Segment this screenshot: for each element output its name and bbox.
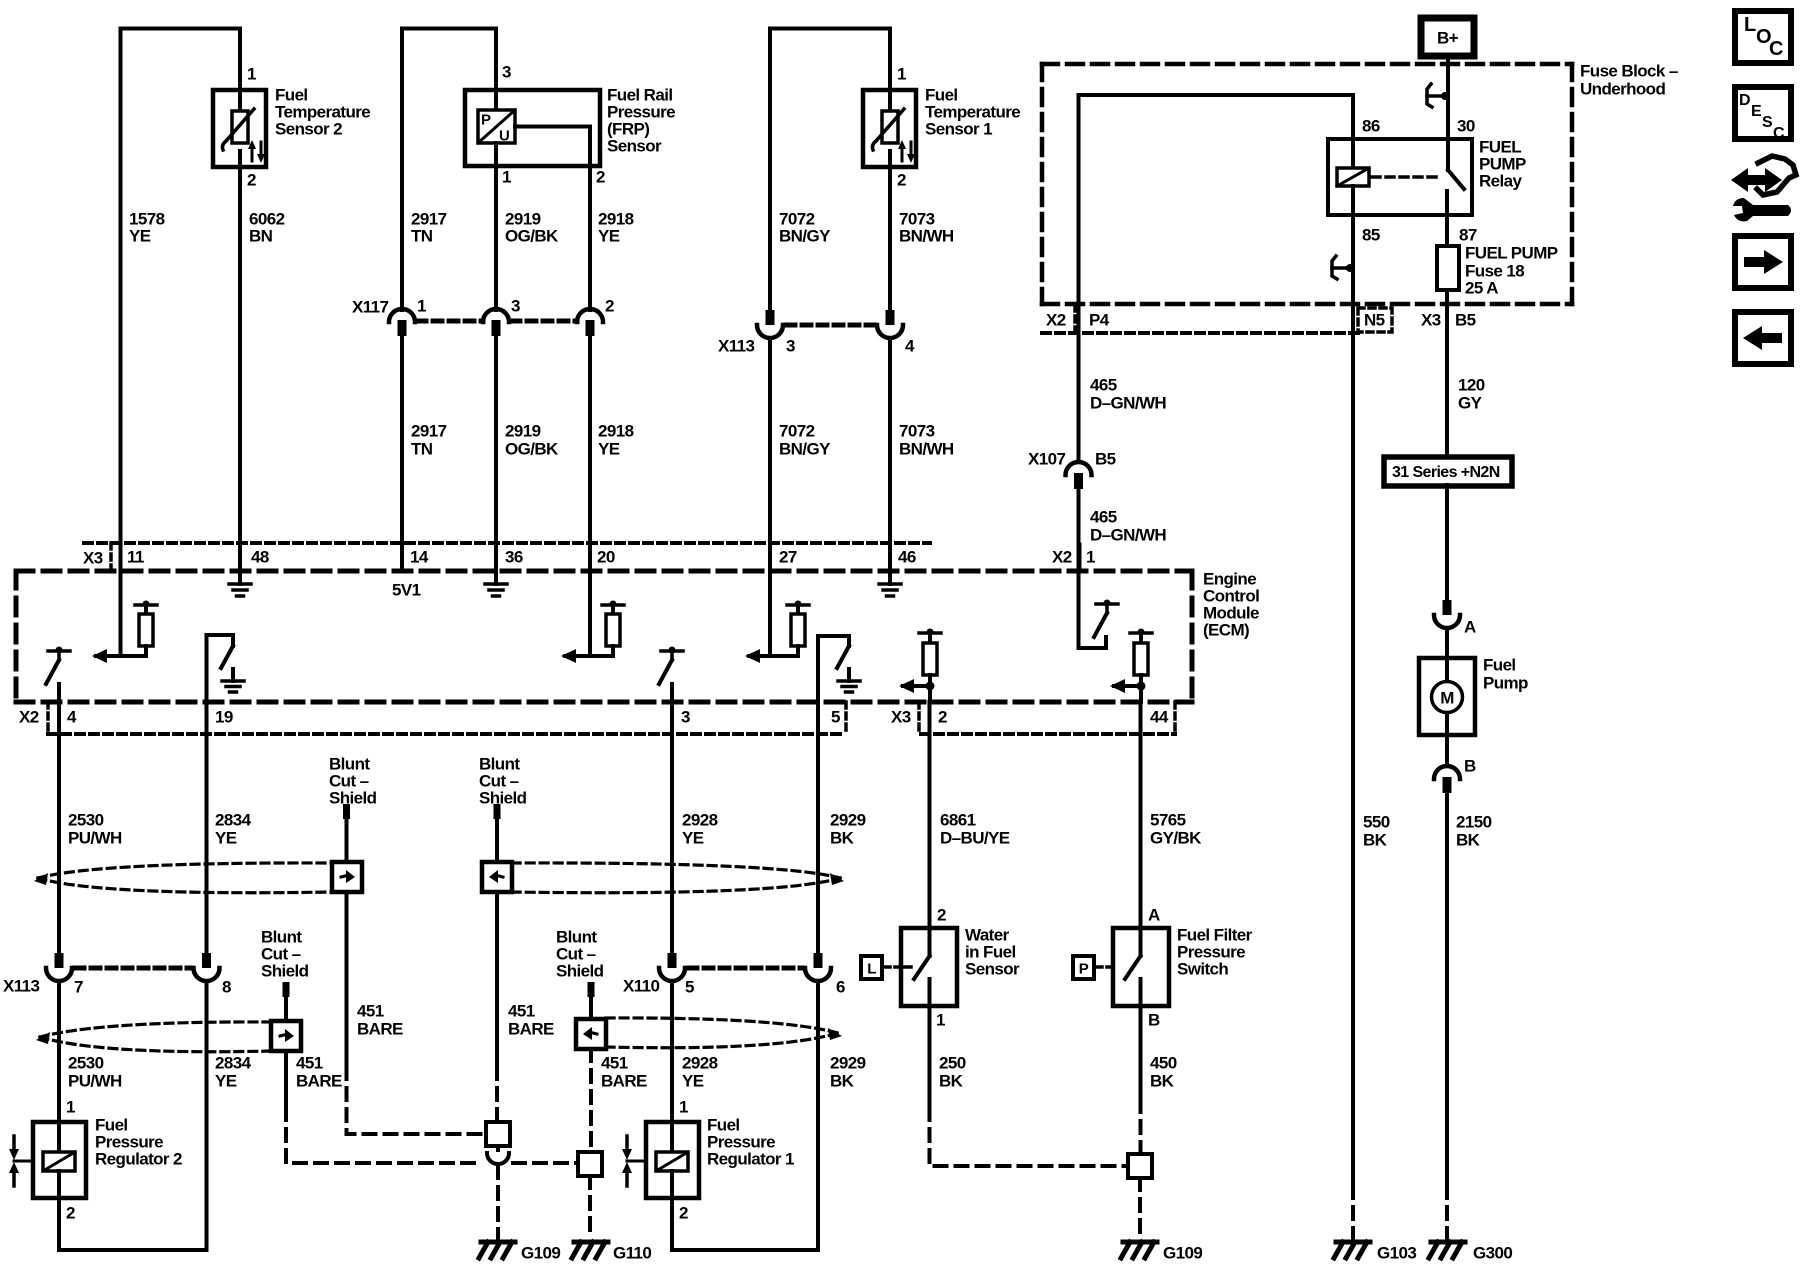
svg-text:Relay: Relay [1479,172,1523,191]
X3 pin 20 [588,543,592,571]
wire loop to Fuel Temperature Sensor 2 pin 1 [121,29,241,544]
svg-text:19: 19 [215,708,233,727]
ECM input for pin 27 [768,571,772,656]
svg-text:3: 3 [511,297,520,316]
31 Series +N2N tag [1384,457,1512,486]
wire 2928 YE lower [670,981,674,1122]
svg-text:TN: TN [411,440,433,459]
svg-text:Shield: Shield [261,962,309,981]
Engine Control Module (ECM) dashed border [16,571,1192,702]
svg-text:P: P [481,112,491,129]
svg-text:X3: X3 [83,549,103,568]
svg-text:Regulator 2: Regulator 2 [95,1150,182,1169]
svg-text:Shield: Shield [329,789,377,808]
svg-text:TN: TN [411,227,433,246]
svg-text:X117: X117 [352,298,389,317]
svg-text:BN: BN [249,227,273,246]
svg-text:GY: GY [1458,394,1483,413]
svg-text:YE: YE [129,227,151,246]
fuse block connector row [1042,331,1358,335]
svg-text:(ECM): (ECM) [1203,621,1249,640]
svg-text:X107: X107 [1028,450,1065,469]
ECM pull-up for pin 44 [1130,631,1152,635]
wire 2530 PU/WH lower [57,981,61,1122]
wire 2834 YE [205,702,209,953]
svg-text:Fuel: Fuel [1483,656,1516,675]
svg-text:YE: YE [215,1072,237,1091]
svg-text:B+: B+ [1437,29,1459,48]
svg-text:20: 20 [597,548,615,567]
blunt cut stub wire 451 lower left [283,982,290,997]
svg-text:D: D [1739,92,1750,109]
svg-text:YE: YE [682,829,704,848]
dashed drain from 451 wire 2 [495,1067,499,1122]
svg-text:85: 85 [1362,226,1380,245]
svg-text:451: 451 [296,1054,323,1073]
shield ellipse right row 2 [606,1018,838,1033]
svg-text:FUEL PUMP: FUEL PUMP [1465,244,1558,263]
ECM input for pin 11: pull-up resistor and comparator arrow [119,571,123,656]
wire 2150 BK [1445,793,1449,1186]
connector X113 pin 8 [202,953,211,968]
svg-text:2834: 2834 [215,1054,252,1073]
ECM input for pin 20 [588,571,592,656]
svg-text:A: A [1148,906,1160,925]
svg-text:2: 2 [605,297,614,316]
svg-text:YE: YE [598,227,620,246]
junction box A [486,1122,510,1146]
svg-text:30: 30 [1457,117,1475,136]
svg-text:2919: 2919 [505,422,541,441]
Fuel Pressure Regulator 2 [9,1098,182,1223]
wire 465 D-GN/WH [1077,333,1081,462]
wire 6062 BN [238,167,242,543]
svg-text:5765: 5765 [1150,811,1186,830]
svg-text:BK: BK [830,829,855,848]
shield ellipse left row 1 [38,863,332,878]
X3 pin 48 [238,543,242,571]
svg-text:S: S [1762,114,1773,131]
svg-text:X113: X113 [3,977,40,996]
connector X113 pin 7 [55,953,64,968]
Fuse Block - Underhood dashed box [1042,64,1572,304]
relay dashed link [1372,175,1440,179]
svg-text:OG/BK: OG/BK [505,227,559,246]
svg-text:1: 1 [936,1011,945,1030]
svg-text:4: 4 [905,337,915,356]
X117 dashed connector line [417,319,483,324]
X113 pin 3 [766,310,775,325]
svg-text:BK: BK [1363,831,1388,850]
X3 pin 11 [119,543,123,571]
svg-text:BN/WH: BN/WH [899,440,954,459]
svg-text:X2: X2 [1052,548,1072,567]
svg-text:X110: X110 [623,977,660,996]
svg-text:7073: 7073 [899,422,935,441]
dashed drain from box 3 to box B [286,1108,482,1163]
svg-text:8: 8 [222,978,231,997]
svg-text:U: U [499,128,509,145]
svg-text:1: 1 [897,65,906,84]
svg-text:2: 2 [596,168,605,187]
svg-text:P4: P4 [1089,311,1110,330]
svg-text:1: 1 [247,65,256,84]
svg-text:BK: BK [1150,1072,1175,1091]
svg-text:451: 451 [508,1002,535,1021]
svg-text:3: 3 [502,63,511,82]
relay coil [1351,139,1355,168]
svg-text:48: 48 [251,548,269,567]
ECM driver for X2 pin 1 (fuel pump relay control) [1079,571,1107,648]
svg-text:BN/WH: BN/WH [899,227,954,246]
FUEL PUMP Relay [1328,117,1526,245]
ECM X3 connector row (top) [84,541,930,545]
DESC icon [1735,87,1791,139]
svg-text:7: 7 [74,978,83,997]
X3 pin 27 [768,543,772,571]
svg-text:YE: YE [682,1072,704,1091]
X3 pin 46 [888,543,892,571]
ground G300 [1431,1240,1465,1245]
svg-text:Sensor: Sensor [607,137,662,156]
Water in Fuel Sensor [901,906,1020,1030]
FUEL PUMP Fuse 18 25 A [1445,215,1449,248]
X113 pin 4 [886,310,895,325]
svg-text:X2: X2 [1046,311,1066,330]
back arrow icon [1735,312,1791,364]
wire 2929 BK [816,702,820,953]
svg-text:L: L [867,961,876,978]
regulator 2 bottom loop wire [59,981,207,1250]
X2 pin 3 [670,684,674,734]
svg-text:P: P [1079,961,1089,978]
wire 550 BK [1351,333,1355,1186]
connector B [1445,735,1449,766]
wire 2919 OG/BK [494,166,498,310]
wire loop to FRP sensor pin 3 [402,29,496,311]
svg-text:YE: YE [215,829,237,848]
wire 250 BK [928,1006,932,1108]
X110 dashed connector line [688,966,802,971]
svg-text:5: 5 [831,708,840,727]
svg-text:1: 1 [66,1098,75,1117]
svg-text:451: 451 [357,1002,384,1021]
svg-text:2929: 2929 [830,811,866,830]
ECM switch to ground for pin 19 [207,635,234,702]
svg-text:B5: B5 [1095,450,1116,469]
dashed drain from 451 wire 1 [347,1067,485,1134]
connector X110 pin 5 [668,953,677,968]
LOC icon [1735,11,1791,63]
svg-text:2918: 2918 [598,422,634,441]
svg-text:X3: X3 [891,708,911,727]
Fuel Temperature Sensor 2 [213,65,370,190]
P telltale box [1073,956,1094,979]
svg-text:550: 550 [1363,813,1390,832]
wire 451 BARE from box 1 [345,892,349,1067]
svg-text:BARE: BARE [601,1072,647,1091]
wire 2928 YE [670,734,674,953]
svg-text:BARE: BARE [296,1072,342,1091]
svg-text:D–GN/WH: D–GN/WH [1090,526,1166,545]
wire 5765 GY/BK [1139,702,1143,928]
svg-text:E: E [1751,103,1762,120]
dashed drain to ground G109 [496,1166,500,1238]
svg-text:120: 120 [1458,376,1485,395]
svg-text:1: 1 [1086,548,1095,567]
svg-text:BK: BK [1456,831,1481,850]
X113 dashed connector line [786,323,874,328]
shield ellipse right row 1 [512,863,840,878]
svg-text:465: 465 [1090,376,1117,395]
svg-text:Sensor: Sensor [965,960,1020,979]
svg-text:X2: X2 [19,708,39,727]
svg-text:31 Series +N2N: 31 Series +N2N [1392,464,1500,481]
diagnostic jump icon (arrows and wrench) [1731,156,1796,221]
X117 pin 3 [483,309,509,322]
Fuel Pump [1445,628,1449,658]
svg-text:OG/BK: OG/BK [505,440,559,459]
connector A [1443,600,1452,615]
Fuel Filter Pressure Switch [1113,906,1253,1030]
Fuel Rail Pressure (FRP) Sensor [465,63,675,187]
svg-text:5: 5 [685,978,694,997]
X117 pin 2 [577,309,603,322]
svg-text:2929: 2929 [830,1054,866,1073]
svg-text:3: 3 [786,337,795,356]
ECM driver for pin 3 [661,649,683,653]
svg-text:2917: 2917 [411,422,447,441]
shield termination box 2 [482,862,512,892]
svg-text:27: 27 [779,548,797,567]
dashed drain to ground G109 right [1138,1178,1142,1238]
svg-text:25 A: 25 A [1465,279,1498,298]
wire 2530 PU/WH [57,734,61,953]
svg-text:2: 2 [247,171,256,190]
ECM switch to ground for pin 5 [818,636,849,702]
shield termination box 1 [332,862,362,892]
wire loop to Fuel Temperature Sensor 1 pin 1 [770,29,890,311]
wire to fuel pump connector A [1445,485,1449,600]
N5 terminal dashed box [1358,308,1392,332]
B+ terminal [1421,18,1474,56]
svg-text:Sensor 2: Sensor 2 [275,120,342,139]
X3 pin 36 [494,543,498,571]
svg-text:PU/WH: PU/WH [68,829,122,848]
svg-text:14: 14 [410,548,429,567]
dashed drain to ground G110 [588,1176,592,1238]
svg-text:Shield: Shield [479,789,527,808]
ECM X2 connector row (bottom left) [48,732,845,736]
svg-text:6861: 6861 [940,811,976,830]
svg-text:D–BU/YE: D–BU/YE [940,829,1010,848]
wire 2929 BK lower [816,981,820,1250]
svg-text:3: 3 [681,708,690,727]
shield termination box 4 [576,1019,606,1049]
svg-text:7072: 7072 [779,422,815,441]
wire X2-P4 to relay coil pin 86 [1079,95,1354,333]
forward arrow icon [1735,236,1791,288]
svg-text:1: 1 [679,1098,688,1117]
svg-text:87: 87 [1459,226,1477,245]
wire 120 GY [1445,333,1449,457]
X113 dashed connector line [75,966,191,971]
svg-text:2530: 2530 [68,1054,104,1073]
svg-text:C: C [1773,125,1785,142]
svg-text:6: 6 [836,978,845,997]
wire 465 D-GN/WH lower [1077,489,1081,571]
ground G103 [1336,1240,1370,1245]
svg-text:B: B [1464,757,1476,776]
svg-text:C: C [1769,38,1783,60]
wire 2834 YE lower [205,981,209,1250]
ground inside ECM at pin 36 [494,571,498,584]
ECM pull-up for pin 2 [919,631,941,635]
ECM driver for pin 4 [48,649,70,653]
X3 pin 14 [400,543,404,571]
junction box B [578,1152,602,1176]
blunt cut stub wire 451 [494,804,501,819]
connector X107 pin B5 [1066,462,1092,475]
svg-text:2150: 2150 [1456,813,1492,832]
svg-text:BN/GY: BN/GY [779,227,831,246]
svg-text:2834: 2834 [215,811,252,830]
svg-text:N5: N5 [1364,311,1385,330]
ground G110 [574,1240,608,1245]
splice clamp on 85 wire [1332,256,1337,279]
wire 2917 TN lower [400,336,404,543]
ground G109 [481,1240,515,1245]
svg-text:5V1: 5V1 [392,581,421,600]
svg-text:Shield: Shield [556,962,604,981]
svg-text:Pump: Pump [1483,674,1528,693]
wire 2918 YE lower [588,336,592,543]
svg-text:A: A [1464,618,1476,637]
svg-text:L: L [1744,14,1756,36]
svg-text:2530: 2530 [68,811,104,830]
svg-text:2: 2 [66,1204,75,1223]
svg-text:250: 250 [939,1054,966,1073]
svg-text:GY/BK: GY/BK [1150,829,1202,848]
wire B+ to relay pin 30 [1446,56,1450,139]
ECM X3 connector row (bottom right) [921,732,1175,736]
svg-text:2928: 2928 [682,1054,718,1073]
inline connector below box A [487,1153,509,1164]
svg-text:G110: G110 [613,1244,651,1263]
svg-text:Switch: Switch [1177,960,1228,979]
svg-text:G300: G300 [1473,1244,1512,1263]
svg-text:46: 46 [898,548,916,567]
svg-text:G103: G103 [1377,1244,1416,1263]
svg-text:86: 86 [1362,117,1380,136]
svg-text:Sensor 1: Sensor 1 [925,120,992,139]
dashed drain from box 4 to box B [589,1049,593,1151]
wire 7073 BN/WH [888,167,892,310]
svg-text:X3: X3 [1421,311,1441,330]
svg-text:YE: YE [598,440,620,459]
svg-text:1: 1 [502,168,511,187]
regulator 1 bottom loop wire [672,981,818,1250]
svg-text:450: 450 [1150,1054,1177,1073]
L telltale box [861,956,882,979]
svg-text:PU/WH: PU/WH [68,1072,122,1091]
svg-text:1: 1 [417,297,426,316]
svg-text:BARE: BARE [357,1020,403,1039]
svg-text:BARE: BARE [508,1020,554,1039]
svg-text:Regulator 1: Regulator 1 [707,1150,794,1169]
X117 pin 1 [389,309,415,322]
dashed 250 BK to junction box C [930,1108,1129,1166]
svg-text:2: 2 [679,1204,688,1223]
wire 2918 YE [588,166,592,310]
blunt cut stub wire 451 [343,804,350,819]
ground inside ECM at pin 46 [888,571,892,584]
svg-text:BN/GY: BN/GY [779,440,831,459]
svg-text:2928: 2928 [682,811,718,830]
svg-text:G109: G109 [521,1244,560,1263]
svg-text:D–GN/WH: D–GN/WH [1090,394,1166,413]
blunt cut stub wire 451 lower right [588,982,595,997]
dashed 450 BK to junction box C [1139,1100,1143,1154]
svg-text:11: 11 [127,548,144,567]
svg-text:2: 2 [938,708,947,727]
svg-text:Underhood: Underhood [1580,80,1665,99]
wire 7072 BN/GY lower [768,338,772,543]
shield termination box 3 [271,1021,301,1051]
svg-text:B5: B5 [1455,311,1476,330]
svg-text:44: 44 [1150,708,1169,727]
svg-text:BK: BK [939,1072,964,1091]
svg-text:2: 2 [897,171,906,190]
splice clamp in fuse block [1427,84,1432,107]
svg-text:451: 451 [601,1054,628,1073]
ground inside ECM at pin 48 [238,571,242,583]
wire 2919 OG/BK lower [494,336,498,543]
svg-text:M: M [1440,689,1454,708]
svg-text:36: 36 [505,548,523,567]
wire 451 BARE from box 2 [495,892,499,1067]
shield ellipse left row 2 [40,1022,271,1037]
svg-text:X113: X113 [718,337,755,356]
svg-text:B: B [1148,1011,1160,1030]
ground G109 right [1123,1240,1157,1245]
X2 pin 4 [57,684,61,734]
svg-text:Fuse Block –: Fuse Block – [1580,62,1678,81]
wire 7073 BN/WH lower [888,338,892,543]
Fuel Pressure Regulator 1 [622,1098,794,1223]
svg-text:2: 2 [937,906,946,925]
wire 6861 D-BU/YE [928,702,932,928]
connector X110 pin 6 [814,953,823,968]
wire relay 85 to N5 [1351,215,1355,333]
wire 450 BK [1139,1006,1143,1100]
svg-text:BK: BK [830,1072,855,1091]
svg-text:465: 465 [1090,508,1117,527]
relay switch [1446,139,1450,170]
svg-text:G109: G109 [1163,1244,1202,1263]
Fuel Temperature Sensor 1 [863,65,1020,190]
wire 451 BARE below box 3 [284,1051,288,1108]
junction box C [1128,1154,1152,1178]
svg-text:4: 4 [67,708,77,727]
